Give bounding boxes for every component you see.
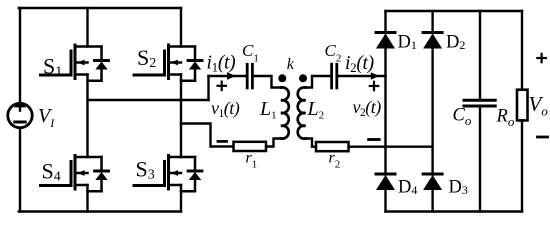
- arrow i1: [227, 72, 236, 79]
- polarity dot secondary: [299, 74, 307, 82]
- capacitor C2: [332, 64, 337, 88]
- diode D4: [376, 174, 395, 190]
- wire i1 segment: [209, 75, 247, 77]
- wire leg A middle: [384, 49, 386, 175]
- transistor S1: [41, 45, 109, 81]
- diode D1: [376, 33, 395, 49]
- wire r2 to rectifier leg B (crosses leg A, no connection): [349, 145, 433, 147]
- wire left edge upper: [19, 8, 21, 104]
- wire node A rail (crosses leg B, no connection): [88, 99, 209, 101]
- wire v1 minus branch (node B to r1): [181, 124, 234, 147]
- resistor R_O: [517, 90, 528, 121]
- wire R_O leg upper: [521, 11, 523, 90]
- wire S1 drain: [86, 8, 88, 47]
- wire bottom-right rail: [386, 210, 523, 212]
- wire left edge lower: [19, 128, 21, 212]
- label v1 plus: [218, 82, 227, 90]
- inductor L1 (primary winding): [281, 87, 289, 138]
- svg-text:i1(t): i1(t): [207, 53, 236, 75]
- label v1 minus: [218, 140, 227, 143]
- wire top-right rail: [386, 10, 523, 12]
- wire leg B (S2 source to S3 drain, node B): [180, 75, 182, 158]
- transistor S4: [41, 156, 109, 192]
- wire leg B middle: [431, 49, 433, 175]
- wire S3 source to bottom rail: [180, 185, 182, 212]
- wire leg A lower: [384, 190, 386, 212]
- arrow i2: [371, 72, 380, 79]
- wire S4 source to bottom rail: [86, 185, 88, 212]
- svg-text:i2(t): i2(t): [345, 53, 374, 75]
- wire S2 drain: [180, 8, 182, 47]
- wire rectifier leg A upper: [384, 11, 386, 33]
- label v2 plus: [370, 82, 378, 90]
- label v2 minus: [369, 138, 380, 141]
- resistor r1: [234, 142, 267, 151]
- capacitor C_O: [464, 100, 495, 106]
- diode D2: [423, 33, 442, 49]
- wire C_O leg upper: [479, 11, 481, 99]
- inductor L2 (secondary winding): [298, 87, 306, 138]
- wire top-left rail: [19, 7, 181, 9]
- capacitor C1: [247, 64, 252, 88]
- wire R_O leg lower: [521, 120, 523, 211]
- wire C_O leg lower: [479, 108, 481, 212]
- wire r1 to L1 bottom: [266, 139, 281, 147]
- diode D3: [423, 174, 442, 190]
- wire leg A (S1 source to S4 drain, node A): [86, 75, 88, 158]
- wire i2 segment: [337, 75, 386, 77]
- resistor r2: [316, 142, 349, 151]
- svg-text:v2(t): v2(t): [353, 97, 382, 119]
- polarity dot primary: [278, 74, 286, 82]
- wire leg B lower: [431, 190, 433, 212]
- wire L2 top to C2: [306, 76, 332, 88]
- wire rectifier leg B upper: [431, 11, 433, 33]
- svg-text:k: k: [287, 56, 295, 73]
- wire C1 to L1 top: [252, 76, 281, 88]
- svg-text:v1(t): v1(t): [211, 98, 240, 120]
- wire bottom-left rail: [19, 210, 181, 212]
- wire node A riser: [207, 76, 209, 100]
- label V_O minus: [538, 136, 548, 139]
- label V_O plus: [537, 54, 545, 62]
- wire L2 bottom to r2: [306, 139, 317, 147]
- source V_I: [8, 102, 32, 128]
- transistor S2: [134, 45, 202, 81]
- transistor S3: [134, 156, 202, 192]
